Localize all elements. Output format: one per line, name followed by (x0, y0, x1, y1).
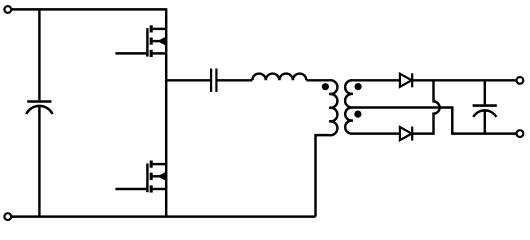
output terminal + (top right) (517, 77, 524, 84)
wire half-bridge vertical (165, 9, 167, 216)
wire D2 cathode up to plus rail with crossover hop (412, 80, 439, 133)
transformer T1 secondary lower winding (345, 107, 400, 133)
wire bottom rail (11, 215, 315, 217)
transformer T1 secondary lower polarity dot (354, 111, 361, 118)
wire top rail (11, 8, 167, 10)
MOSFET Q1 (high side) (115, 25, 166, 57)
input terminal - (bottom left) (4, 213, 11, 220)
wire half-bridge midpoint to resonant cap (166, 79, 210, 81)
transformer T1 primary polarity dot (322, 83, 329, 90)
capacitor C3 (output, polarized) (473, 80, 497, 133)
transformer T1 secondary upper winding (345, 80, 400, 107)
diode D1 (upper rectifier) (400, 73, 412, 87)
wire center tap to output minus rail (353, 108, 517, 134)
wire inductor to transformer primary (306, 79, 329, 81)
wire D1 cathode to output plus terminal (412, 79, 516, 81)
wire resonant cap to inductor (218, 79, 253, 81)
capacitor C2 (resonant) (211, 69, 216, 92)
input terminal + (top left) (4, 6, 11, 13)
capacitor C1 (input bulk, polarized) (26, 9, 52, 216)
diode D2 (lower rectifier) (400, 127, 412, 141)
MOSFET Q2 (low side) (115, 161, 166, 193)
output terminal - (bottom right) (517, 130, 524, 137)
inductor L1 (resonant) (252, 74, 306, 81)
transformer T1 secondary upper polarity dot (355, 83, 362, 90)
transformer T1 primary winding (316, 80, 338, 216)
